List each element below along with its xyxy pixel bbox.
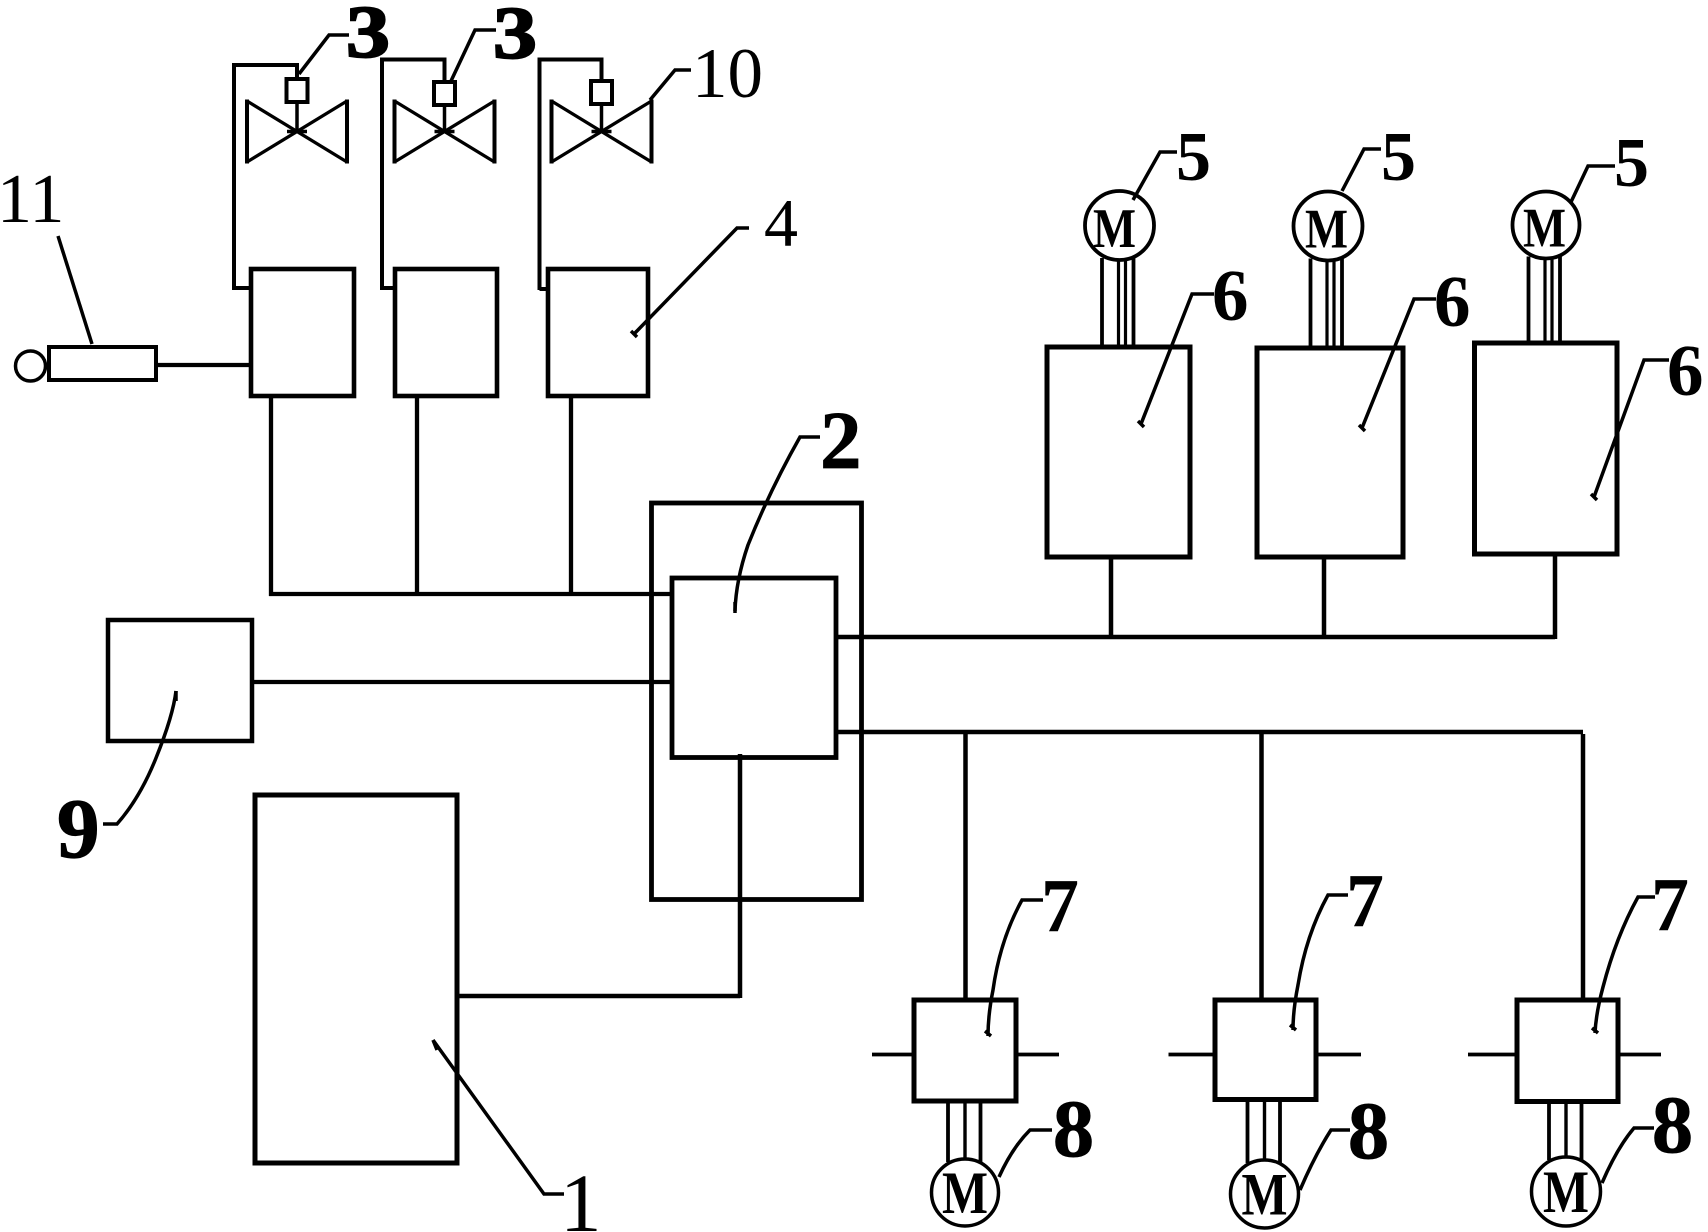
gearbox box 7a: [914, 1000, 1016, 1101]
svg-text:7: 7: [1651, 863, 1689, 947]
mixer box 6c: [1475, 343, 1618, 554]
bus controller to mixers 6: [836, 635, 1555, 640]
wire box1 to controller 2: [457, 994, 740, 999]
shaft motor3 to mixer box 6c: [1527, 257, 1531, 344]
shaft motor2 to mixer box 6b: [1309, 259, 1313, 349]
mixer box 6a: [1047, 347, 1190, 557]
svg-text:M: M: [1242, 1162, 1288, 1228]
valve 2 actuator square (item 3) with leader: [434, 82, 455, 105]
box 4c: [548, 269, 648, 396]
wire box6a down to bus: [1109, 557, 1114, 639]
svg-text:2: 2: [820, 394, 862, 486]
shaft motor1 to mixer box 6a: [1100, 258, 1104, 347]
bus boxes4 to controller 2: [269, 592, 672, 596]
svg-text:4: 4: [764, 185, 798, 261]
svg-text:6: 6: [1667, 330, 1704, 411]
wire box4c down: [569, 396, 573, 596]
svg-text:5: 5: [1176, 119, 1211, 196]
valve 3 butterfly symbol: [600, 104, 604, 132]
svg-text:7: 7: [1346, 859, 1384, 943]
motor M (item 8a): [932, 1159, 999, 1226]
svg-text:5: 5: [1381, 119, 1416, 196]
wire bus down to gearbox 7c: [1581, 734, 1586, 1000]
valve unit 2 pipe/wire: [380, 58, 384, 291]
controller outer box 2: [652, 503, 862, 900]
motor M (item 8c): [1532, 1157, 1601, 1226]
wire box4a down: [269, 396, 273, 596]
wire valve3 to box 4c: [540, 287, 551, 291]
valve 2 butterfly symbol: [443, 105, 447, 132]
side stubs of box 7b: [1169, 1053, 1216, 1057]
gearbox box 7b: [1215, 1000, 1316, 1100]
wire box6c down to bus: [1553, 554, 1558, 639]
valve 3 actuator square (item 3): [591, 81, 612, 104]
svg-text:9: 9: [57, 782, 100, 876]
svg-text:3: 3: [346, 0, 390, 74]
svg-text:8: 8: [1652, 1079, 1693, 1170]
svg-text:3: 3: [493, 0, 537, 75]
wire box6b down to bus: [1322, 557, 1327, 639]
wire valve1 to box 4a: [234, 286, 253, 290]
svg-text:M: M: [942, 1160, 988, 1226]
valve 1 actuator square (item 3) with leader: [287, 79, 308, 102]
svg-text:10: 10: [692, 35, 763, 113]
svg-text:M: M: [1093, 198, 1136, 260]
box 1 (large tank): [255, 795, 457, 1163]
svg-text:11: 11: [0, 161, 64, 238]
box 4a: [251, 269, 354, 396]
svg-text:8: 8: [1348, 1085, 1389, 1176]
wire bus down to gearbox 7b: [1259, 734, 1264, 1000]
svg-text:8: 8: [1053, 1083, 1094, 1174]
svg-text:1: 1: [560, 1157, 602, 1232]
shaft box7c to motor M (item 8): [1547, 1102, 1551, 1161]
svg-text:M: M: [1543, 1159, 1589, 1225]
svg-text:M: M: [1523, 198, 1566, 260]
svg-text:6: 6: [1212, 255, 1249, 336]
valve unit 3 pipe/wire: [538, 58, 542, 291]
wire box4b down: [415, 396, 419, 596]
box 4b: [395, 269, 497, 396]
motor M1 (item 5): [1085, 191, 1154, 260]
wire valve2 to box 4b: [382, 286, 397, 290]
svg-text:M: M: [1305, 199, 1348, 261]
controller inner box 2: [672, 578, 836, 758]
shaft box7a to motor M (item 8): [946, 1101, 950, 1162]
wire bus down to gearbox 7a: [963, 734, 968, 1000]
side stubs of box 7c: [1468, 1053, 1517, 1057]
motor M2 (item 5): [1294, 192, 1363, 261]
svg-text:5: 5: [1614, 125, 1649, 202]
motor M (item 8b): [1231, 1160, 1299, 1228]
gearbox box 7c: [1517, 1000, 1618, 1102]
svg-text:6: 6: [1434, 261, 1471, 342]
motor M3 (item 5): [1513, 192, 1580, 259]
sensor cylinder (item 11): [16, 351, 46, 381]
valve unit 1 pipe/wire: [232, 63, 236, 290]
box 9: [108, 620, 252, 741]
mixer box 6b: [1257, 348, 1403, 557]
shaft box7b to motor M (item 8): [1246, 1100, 1250, 1164]
valve 1 butterfly symbol: [295, 102, 299, 132]
svg-text:7: 7: [1041, 864, 1079, 948]
bus controller to gearboxes 7: [836, 730, 1583, 735]
side stubs of box 7a: [872, 1053, 914, 1057]
wire box9 to controller 2: [252, 680, 672, 684]
wire cylinder to box 4a: [154, 363, 253, 367]
